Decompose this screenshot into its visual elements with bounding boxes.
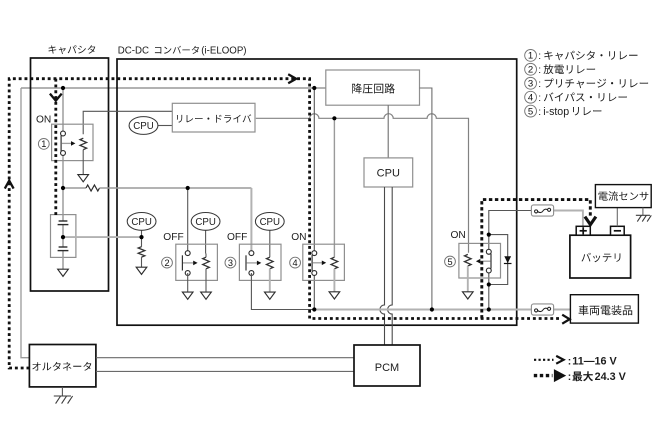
CPU ellipse driving relay K2 coil	[205, 230, 207, 254]
relay K1 closed contact arm	[60, 135, 62, 151]
capacitor C2 lower plates	[59, 246, 68, 248]
svg-text:ON: ON	[451, 230, 466, 241]
node: relay K5 bottom junction with bypass diode at (488.8,284.5)	[487, 282, 491, 286]
diode D1 (i-stop relay bypass) pointing down	[504, 256, 511, 263]
wire: relay K4 coil from driver bus	[333, 118, 335, 257]
relay K2 actuating arrow	[183, 262, 194, 264]
node: main bus junction relay K5 at (488.8,309.5)	[487, 307, 491, 311]
node: junction relay K1 rail / discharge branch at (63,188)	[61, 186, 65, 190]
battery - terminal	[611, 226, 625, 235]
relay K5 (i-stop relay) body	[459, 243, 501, 278]
relay driver box リレー・ドライバ	[172, 103, 255, 132]
svg-text:(i-ELOOP): (i-ELOOP)	[201, 45, 246, 56]
ground: relay K3 coil ground	[265, 292, 276, 299]
wire: sense node down to divider resistor	[141, 237, 143, 247]
relay K2 (discharge relay) body	[176, 244, 218, 280]
ground: sense divider ground	[136, 267, 147, 274]
wire: relay 1 bottom contact down to capacitor bank	[62, 153, 64, 215]
relay K4 closed contact arm	[311, 255, 313, 271]
svg-text:4: 4	[528, 93, 534, 104]
svg-text:PCM: PCM	[375, 362, 399, 374]
arrow: flow right on top run (11-16V)	[288, 74, 296, 83]
relay K3 open contact arm	[245, 255, 247, 270]
current sensor box 電流センサ	[595, 185, 651, 208]
relay K1 coil resistor	[80, 138, 87, 149]
ground: current sensor chassis ground	[636, 214, 650, 216]
svg-text:11—16 V: 11—16 V	[572, 355, 617, 367]
node: relay K4 coil tap on driver bus at (334.4,118.3)	[332, 116, 336, 120]
node: main bus junction step-down output at (431.9,309.5)	[430, 307, 434, 311]
relay K1 coil ground wire	[82, 153, 84, 175]
node: discharge branch to relay K2 at (187.7,188)	[186, 186, 190, 190]
label circled 1	[38, 139, 49, 150]
dashed route: capacitor charge branch through relay K1	[54, 79, 57, 217]
label circled 5	[445, 256, 456, 267]
wire: relay K4 contact riser to feed node (63..) at y=88	[313, 88, 315, 252]
label circled 2	[162, 257, 173, 268]
wire: CPU monitor stem	[141, 230, 143, 238]
wire: capacitor bank internal rail	[62, 215, 64, 221]
capacitor bank enclosure	[51, 215, 76, 258]
node: capacitor bank mid tap at (63,237.1)	[61, 235, 65, 239]
svg-text:5: 5	[528, 106, 533, 117]
arrow: flow up on left riser (11-16V)	[5, 181, 14, 189]
wire: drop to relay K3 top contact	[250, 188, 252, 252]
wire: relay K3 coil to ground	[269, 271, 271, 292]
svg-text:CPU: CPU	[260, 217, 280, 228]
relay K2 contact pins	[185, 251, 190, 256]
node: main bus junction relay K4 at (314.3,309.5)	[312, 307, 316, 311]
wire: discharge branch with series resistor from capacitor rail to relays K2/K3	[63, 187, 86, 189]
wire: relay K4 coil to ground	[333, 269, 335, 292]
relay K1 actuating arrow	[62, 142, 72, 144]
wire: main 12V bus y=309.5 to vehicle loads	[314, 309, 531, 311]
wire: alternator to chassis ground	[61, 387, 63, 396]
svg-text:2: 2	[164, 258, 169, 268]
fuse F1 (battery feed fusible link)	[531, 205, 553, 216]
node: capacitor sense junction at (141.5,237.1)	[139, 235, 143, 239]
svg-text:24.3 V: 24.3 V	[595, 371, 627, 383]
wire: relay K5 coil to ground	[467, 268, 469, 292]
relay K2 open contact arm	[181, 255, 183, 270]
svg-text:ON: ON	[36, 114, 51, 125]
wire: step-down to CPU box vertical	[387, 105, 389, 158]
fuse F2 (vehicle loads fusible link)	[531, 304, 553, 315]
relay K1 contact pins	[61, 131, 66, 136]
svg-text:DC-DC: DC-DC	[118, 45, 149, 56]
ground: relay K5 coil ground	[463, 292, 474, 299]
svg-text:2: 2	[528, 65, 533, 76]
relay K3 coil resistor	[269, 254, 271, 258]
CPU box in DC-DC converter	[364, 158, 413, 187]
wire: main 12V feed line y=88 from alternator riser to step-down circuit	[21, 87, 326, 89]
wire: relay K2 coil to ground	[205, 271, 207, 292]
wire: step-down output right side down to main bus	[420, 88, 432, 310]
wire: relay driver output bus y=118.3 with hops, feeding K4/K5 coils	[256, 114, 469, 253]
label circled 3	[225, 257, 236, 268]
relay K3 actuating arrow	[247, 262, 258, 264]
svg-text:OFF: OFF	[227, 232, 247, 243]
legend: dashed line key bottom right	[534, 359, 554, 361]
svg-text:3: 3	[528, 79, 533, 90]
DC-DC converter box (i-ELOOP) outline	[117, 59, 517, 325]
relay K3 contact pins	[249, 251, 254, 256]
svg-text:5: 5	[447, 257, 452, 267]
label circled 4	[290, 257, 301, 268]
arrow: heavy flow down into battery + (max 24.3V)	[585, 217, 596, 225]
wire: CPU-PCM communication pair down to PCM with hops over main bus	[380, 187, 385, 345]
relay K1 (capacitor relay) body	[52, 124, 93, 160]
wire: relay K5 contact line upper	[488, 235, 490, 252]
wire: alternator sense riser x=21 down to alternator	[21, 88, 29, 358]
relay K4 (bypass relay) body	[303, 244, 345, 280]
arrow: flow down into capacitor	[50, 94, 62, 101]
svg-text:ON: ON	[291, 232, 306, 243]
node: relay K4 riser junction on feed line at (314.3,88)	[312, 86, 316, 90]
relay K5 closed contact arm	[490, 254, 492, 269]
wire: battery - to current sensor	[616, 208, 618, 227]
wire: drop to relay K2 top contact	[187, 188, 189, 252]
node: relay K5 top junction with bypass diode at (488.8,234.6)	[487, 233, 491, 237]
wire: relay K5 contact line lower	[488, 271, 490, 310]
svg-text:1: 1	[528, 51, 533, 62]
CPU ellipse driving relay K3 coil	[269, 230, 271, 254]
svg-text:CPU: CPU	[133, 121, 153, 132]
wire: relay K4 bottom contact to main bus	[313, 273, 315, 310]
svg-text:CPU: CPU	[195, 217, 215, 228]
wire: capacitor voltage sense tap to CPU monitor	[63, 236, 142, 238]
svg-text::: :	[568, 356, 571, 367]
label バッテリ	[582, 253, 621, 262]
wire: bypass diode branch around K5 contacts	[489, 235, 508, 285]
svg-text::: :	[538, 65, 541, 76]
alternator box オルタネータ	[29, 345, 96, 387]
wire: capacitor positive rail x=63 down to relay 1 top contact	[62, 88, 64, 134]
svg-text:i-stop: i-stop	[543, 106, 569, 118]
svg-text:3: 3	[228, 258, 233, 268]
legend: relay name list top right	[525, 50, 537, 62]
dashed route: max 24.3V battery charge loop (thick)	[482, 200, 591, 319]
wire: battery feed from relay K5 contacts up and right through fuse to battery+	[489, 211, 532, 235]
wire: CPU to relay driver stub	[158, 125, 172, 127]
label キャパシタ	[49, 45, 96, 54]
svg-text::: :	[538, 51, 541, 62]
relay K5 coil resistor	[465, 254, 472, 266]
resistor: discharge current limiting resistor	[86, 185, 100, 191]
wire: current sensor to chassis ground	[642, 208, 644, 216]
svg-text::: :	[538, 107, 541, 118]
capacitor box (キャパシタ) outline	[31, 58, 109, 291]
ground: relay K1 coil ground	[78, 175, 89, 182]
dashed route: 11-16V alternator output loop (alternator-top-loads)	[9, 79, 561, 368]
svg-text::: :	[538, 79, 541, 90]
svg-text:CPU: CPU	[131, 217, 151, 228]
wire: relay K2 bottom contact to ground	[187, 273, 189, 292]
svg-text:CPU: CPU	[377, 168, 400, 180]
relay K5 actuating arrow (mirrored)	[479, 260, 490, 262]
svg-text::: :	[538, 93, 541, 104]
battery バッテリ body	[570, 235, 631, 278]
capacitor C1 upper plates	[59, 220, 68, 222]
ground: relay K2 coil ground	[201, 292, 212, 299]
relay K4 contact pins	[312, 251, 317, 256]
ground: capacitor bank ground	[58, 269, 69, 276]
relay K5 contact pins	[486, 249, 491, 254]
svg-text::: :	[568, 372, 571, 383]
ground: relay K2 contact ground	[182, 292, 193, 299]
relay K3 (precharge relay) body	[239, 244, 281, 280]
wire: relay K3 bottom contact to main bus	[251, 273, 314, 310]
wire: alternator-PCM control lines	[96, 357, 354, 359]
relay K2 coil resistor	[205, 254, 207, 258]
ground: alternator chassis ground	[54, 395, 71, 397]
op-amp CPU monitor ellipse (capacitor voltage)	[127, 213, 156, 231]
relay K4 actuating arrow	[313, 262, 323, 264]
CPU ellipse driving relay driver	[129, 117, 158, 135]
svg-text:1: 1	[41, 139, 46, 149]
resistor: capacitor sense divider	[138, 247, 145, 257]
svg-text:4: 4	[293, 258, 298, 268]
relay K4 coil resistor	[331, 257, 338, 269]
arrow: flow right into vehicle loads (11-16V)	[562, 315, 569, 324]
wire: relay 1 coil supply from y=110.6 to relay driver	[83, 111, 172, 134]
step-down circuit box 降圧回路	[326, 70, 420, 105]
vehicle electrical loads box 車両電装品	[570, 295, 638, 323]
svg-text:OFF: OFF	[163, 232, 183, 243]
node: junction feed line / relay K1 rail at (63,88)	[61, 86, 65, 90]
ground: relay K4 coil ground	[329, 292, 340, 299]
wire: divider resistor to ground	[141, 257, 143, 267]
PCM box	[354, 345, 420, 386]
battery + terminal	[576, 226, 590, 235]
